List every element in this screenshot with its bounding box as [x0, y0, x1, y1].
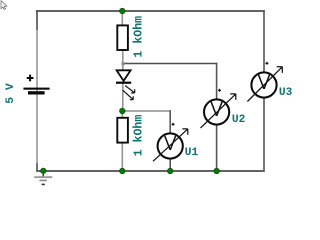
LED light arrow 1 — [125, 86, 135, 93]
voltmeter U3 circle — [251, 72, 276, 97]
svg-text:U2: U2 — [232, 114, 246, 126]
LED D1 triangle — [117, 70, 131, 81]
wire branch LED/R2 node to U1 (gray) — [122, 110, 171, 112]
LED D1 cathode bar — [116, 82, 131, 84]
node U2 bottom rail — [214, 168, 220, 174]
lead R1 top — [121, 11, 123, 26]
wire U3 bottom to rail — [263, 97, 265, 170]
svg-text:5 V: 5 V — [5, 83, 17, 104]
lead R1 bottom to LED top — [122, 50, 124, 71]
node ground junction — [41, 168, 47, 174]
wire U2 bottom to rail — [216, 124, 218, 170]
voltmeter U2 plus — [218, 89, 221, 92]
voltmeter U1 plus — [172, 123, 175, 126]
voltmeter U2 arrow — [201, 94, 236, 128]
wire U1 top vertical — [169, 110, 171, 133]
voltmeter U1 circle — [158, 133, 183, 158]
lead R2 bottom — [121, 143, 123, 171]
wire left vertical lower (dark near corner) — [36, 163, 38, 171]
voltmeter U2 circle — [204, 99, 229, 124]
voltmeter U3 plus — [265, 62, 268, 65]
wire bottom rail — [36, 170, 265, 172]
ground bar 1 — [34, 176, 52, 178]
battery V1 plate bottom (short thick) — [28, 91, 45, 94]
node U1 bottom rail — [167, 168, 173, 174]
lead R2 top — [121, 111, 123, 118]
voltmeter U2 V letter — [211, 101, 222, 115]
battery V1 plate top (long) — [23, 88, 49, 90]
node top (rail/R1) — [120, 8, 126, 14]
ground bar 3 — [42, 184, 45, 186]
wire right vertical to U3 top — [263, 10, 265, 72]
svg-text:1 kOhm: 1 kOhm — [132, 16, 145, 58]
wire U1 bottom to rail — [169, 158, 171, 170]
ground bar 2 — [39, 180, 46, 182]
voltmeter U1 V letter — [165, 135, 176, 149]
battery plus sign — [27, 75, 34, 82]
LED light arrow 2 — [123, 90, 133, 100]
lead LED bottom to node — [122, 84, 124, 112]
voltmeter U1 arrow — [153, 129, 188, 161]
svg-text:1 kOhm: 1 kOhm — [132, 115, 145, 157]
voltmeter U3 V letter — [258, 74, 269, 88]
wire left vertical upper (dark near corner) — [36, 10, 38, 30]
wire top rail — [36, 10, 265, 12]
junction square (R1/LED/U2 branch) — [122, 62, 125, 65]
voltmeter U3 arrow — [247, 67, 282, 102]
svg-text:U1: U1 — [185, 147, 199, 159]
resistor R1 — [117, 25, 128, 50]
resistor R2 — [117, 118, 128, 143]
wire left vertical (gray midspan) — [36, 30, 38, 163]
wire branch R1/LED junction to U2 — [124, 63, 217, 65]
mouse cursor — [1, 1, 7, 10]
node LED/R2/U1 branch — [120, 108, 126, 114]
wire U2 top vertical — [216, 63, 218, 100]
ground stub — [42, 171, 44, 177]
svg-text:U3: U3 — [279, 87, 293, 99]
node R2 bottom rail — [120, 168, 126, 174]
